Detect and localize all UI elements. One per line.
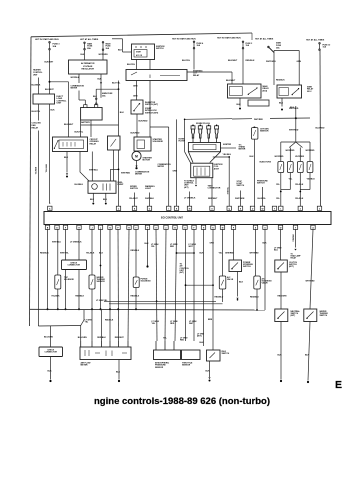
svg-text:WHT/RED: WHT/RED [250,253,260,255]
wire tab 47.5 to bus [47,229,49,309]
svg-text:GRN/BLK: GRN/BLK [292,234,294,242]
fuse FUSE 3 30A [49,42,51,51]
svg-text:BLK: BLK [263,243,268,245]
wire BLK to ignition switch [122,39,124,52]
svg-text:OXYGENSENSOR: OXYGENSENSOR [260,128,269,132]
svg-text:RED/BLK: RED/BLK [276,79,285,81]
box below main relays [248,100,269,106]
wire tab 110 to air flow meter [109,229,111,341]
box atmospheric pressure sensor [154,350,181,360]
svg-text:YEL/BLU: YEL/BLU [223,154,232,156]
relay circuit opening relay [53,137,88,152]
wire BLK/RED inhibitor to solenoid [136,114,138,137]
svg-text:BLK: BLK [93,96,98,98]
fuel pump [88,181,116,193]
wire tab 57 to bus through TOP sensor [57,229,59,309]
wire GRN distributor to EGI [176,119,178,206]
svg-text:HOT IN START AND RUN: HOT IN START AND RUN [172,37,196,40]
wire WHT/GRN fuse to regulator [102,51,104,61]
svg-text:YEL/BLK: YEL/BLK [295,198,304,200]
ground main relay 1 [239,98,241,107]
svg-text:WHT/GRN: WHT/GRN [235,198,245,200]
svg-text:GRN: GRN [210,243,215,245]
ground main relay 2 [281,98,283,107]
svg-text:BLU/GRN: BLU/GRN [44,336,53,338]
svg-text:BLK: BLK [305,354,310,356]
wire battery bottom to relay [80,120,82,137]
svg-text:WHT/YEL: WHT/YEL [60,253,70,255]
svg-text:J: J [91,228,92,230]
svg-text:SPARK PLUGS: SPARK PLUGS [196,122,211,125]
wire tab 79 to bus [78,229,80,309]
switch clutch switch [275,260,288,272]
wire clutch to neutral switch [280,272,282,309]
fuse MAIN FUSE 30A [102,42,104,51]
spark plug 3 [207,126,211,129]
svg-text:BLK: BLK [120,112,125,114]
svg-text:BLK/WHT: BLK/WHT [226,80,236,82]
wire bus drop left [37,309,39,326]
svg-text:WHT/YEL: WHT/YEL [45,164,47,174]
wire BLK battery positive with fuse [96,88,118,90]
wire to tachometer [221,147,237,149]
switch power steering [229,260,242,272]
wire bus to air flow meter 1 [80,326,82,342]
svg-text:WHT/RED: WHT/RED [286,150,295,152]
svg-text:WHT/BLU: WHT/BLU [52,242,62,244]
svg-text:BLK/WHT: BLK/WHT [228,60,238,62]
fuse FUSE 4 30A [193,41,195,49]
wire BLU/YEL below elec load [37,104,39,121]
ground idle switch [209,361,211,377]
wire tab 118 to air flow meter [117,229,120,341]
ground air flow meter [118,360,120,380]
svg-text:RED/BLU: RED/BLU [250,296,259,298]
EGI control unit bottom connector tabs [45,225,49,229]
wire fuel pump feed [109,169,111,181]
wire to main relay horizontal [187,71,232,73]
wire tab 65.5 through check connector [65,229,67,309]
svg-text:BLK: BLK [278,354,283,356]
ground ignition coil [195,178,197,184]
ground neutral switch [280,322,282,380]
wire BLU/BLK heater down [37,78,39,95]
wire BLK fuse to regulator [84,50,86,60]
svg-text:WHT/RED: WHT/RED [275,156,284,158]
svg-text:YEL/BLK: YEL/BLK [307,178,316,180]
starter solenoid [134,137,151,151]
svg-text:BLU/BLK: BLU/BLK [32,84,41,86]
svg-text:BLK/WHT: BLK/WHT [45,89,55,91]
oxygen sensor [253,127,255,129]
wire tab 255.5 to AC solenoid [255,229,257,276]
svg-text:BLK: BLK [81,54,86,56]
svg-text:WHT/RED: WHT/RED [295,156,304,158]
ground starter motor [136,161,138,166]
wire left border [30,37,32,326]
sensor purge solenoid [133,277,139,288]
svg-text:BATTERY: BATTERY [81,121,90,124]
ground power steering [237,272,239,297]
distributor cap [188,143,220,152]
wire tab 185 to throttle sensor [185,229,187,341]
wire main bus [30,308,266,311]
wire tab 194 to throttle sensor [193,229,195,341]
EGI control unit top connector tabs [48,206,52,210]
svg-text:WHT/RED: WHT/RED [289,129,299,131]
wire GRN relay to inhibitor [136,81,138,101]
svg-text:YEL/WHT: YEL/WHT [129,198,139,200]
svg-text:W: W [262,209,264,211]
svg-text:RED/WHT: RED/WHT [208,198,218,200]
sensor AC solenoid valve [254,276,260,289]
injector 1 [278,162,284,173]
svg-text:BLK: BLK [200,253,205,255]
box alternator voltage regulator U1 [69,60,108,74]
svg-text:WHT/RED: WHT/RED [289,108,299,110]
svg-text:RED/BLK: RED/BLK [75,296,84,298]
injector 4 [307,162,313,173]
ground water thermo switch [308,322,310,381]
svg-text:RED/WHT: RED/WHT [115,337,125,339]
svg-text:BLK: BLK [239,281,244,283]
wire ignition to relay box 2 [149,60,151,70]
wire bus to distributor [185,118,232,121]
check connector bottom [39,347,63,357]
svg-text:RED/BLK: RED/BLK [131,295,140,297]
svg-text:LT GRN/BLK: LT GRN/BLK [70,242,82,244]
wire GRN jog to EGI [150,126,169,128]
svg-text:BRN/YEL: BRN/YEL [34,167,36,174]
svg-text:YEL/BLU: YEL/BLU [226,187,228,195]
svg-text:GRN: GRN [173,170,178,172]
wire BLK regulator to battery [100,74,102,98]
injector 2 [287,162,293,173]
spark plug 1 [191,126,195,129]
svg-text:W: W [280,228,282,230]
fusible link MAIN FUSE 30A [268,47,274,53]
svg-text:HOT IN START AND RUN: HOT IN START AND RUN [35,38,59,41]
svg-text:BLK: BLK [279,102,284,104]
wire tab 147.5 ends at connector dot [147,229,149,265]
wire injector pair merge 2 [299,173,301,207]
switch inhibitor switch S2 [131,100,143,114]
svg-text:RED/BLK: RED/BLK [131,250,140,252]
svg-text:BLK/YEL: BLK/YEL [112,83,121,85]
svg-text:BRN: BRN [208,319,213,321]
box EGI control unit U2 [44,212,331,225]
svg-text:WHT/GRN: WHT/GRN [99,54,109,56]
svg-text:WHT/BLK: WHT/BLK [71,77,80,79]
svg-text:IGNITER: IGNITER [223,144,232,146]
svg-text:BLK: BLK [200,342,205,344]
wire circuit opening relay right down [80,152,89,182]
svg-text:YEL/BLK: YEL/BLK [51,296,60,298]
svg-text:BLK: BLK [145,243,150,245]
wire injector feed split [281,141,310,143]
svg-text:BLK: BLK [64,157,69,159]
svg-text:GRN: GRN [297,61,302,63]
ignition coil [191,163,213,178]
ground fuel pump 1 [92,193,94,202]
svg-text:RED/BLK: RED/BLK [40,253,49,255]
wire bus to air flow meter 2 [91,310,93,341]
svg-text:BLU/YEL: BLU/YEL [258,198,267,200]
svg-text:BLK: BLK [237,104,242,106]
switch water thermo switch [304,309,317,322]
wire top hot bus rail [31,33,252,37]
wire BLU/RED right side long [319,51,322,207]
wire tab 129 to air flow meter [128,229,129,341]
wire tab 222.5 to AC valve [222,229,224,276]
wire battery bottom 2 [90,120,92,137]
wire YEL/BLU coil to EGI [213,156,229,158]
svg-text:BLK: BLK [51,109,56,111]
svg-text:WHT/BLU: WHT/BLU [89,169,99,171]
fuse FUSE 10 10A [319,43,321,51]
wire merge bar to AT [177,252,195,254]
sensor water thermo sensor [89,275,95,289]
wire BLK oxygen to EGI [253,139,255,206]
box throttle sensor [182,350,201,360]
wire resistor down [113,150,115,182]
starter motor M1 [132,151,141,160]
distributor cone [184,119,186,151]
box idle switch [207,350,221,361]
wire BLK/YEL fuse4 down [193,49,195,70]
svg-text:BLK: BLK [116,371,121,373]
svg-text:BLU/BLK: BLU/BLK [75,184,84,186]
svg-text:RED/BLK: RED/BLK [246,60,255,62]
svg-text:LT GRN/BLK: LT GRN/BLK [184,198,196,200]
svg-text:WHT/RED: WHT/RED [306,280,316,282]
spark plug 4 [215,126,219,129]
wire WHT/RED down to injectors [295,118,297,142]
wire water thermo switch feed [310,229,313,309]
svg-text:BLK: BLK [250,156,255,158]
ground circuit opening relay [66,152,68,173]
wire tab 175 to atmospheric sensor [175,229,177,341]
svg-text:EGI CONTROL UNIT: EGI CONTROL UNIT [161,217,184,219]
svg-text:BLK/YEL: BLK/YEL [75,131,84,133]
svg-text:RED/BLK: RED/BLK [105,319,114,321]
wire tab 213 to idle switch [212,229,214,350]
battery B1 [81,108,103,121]
svg-text:HOT AT ALL TIMES: HOT AT ALL TIMES [306,38,325,41]
wire BLK/YEL ignition to relay box [136,60,138,70]
sensor TOP switch [55,275,61,289]
injector 3 [297,162,303,173]
wire second bus [38,325,80,328]
wire tab 92 through water thermo sensor [91,229,93,309]
svg-text:HOT AT ALL TIMES: HOT AT ALL TIMES [80,38,99,41]
svg-text:ngine controls-1988-89 626 (no: ngine controls-1988-89 626 (non-turbo) [94,395,270,406]
svg-text:HOT AT ALL TIMES: HOT AT ALL TIMES [255,38,274,41]
svg-text:BLK: BLK [103,199,108,201]
svg-text:M: M [135,155,138,159]
svg-text:HOT IN START AND RUN: HOT IN START AND RUN [217,37,241,40]
svg-text:BLU/RED: BLU/RED [316,127,325,129]
svg-text:BLK/YEL: BLK/YEL [182,60,191,62]
wire GRN to main relay 2 [298,51,300,86]
svg-text:INJECTORS: INJECTORS [260,161,272,163]
svg-text:1: 1 [280,209,281,211]
svg-text:GRN/RED: GRN/RED [225,253,235,255]
svg-text:BLK/RED: BLK/RED [139,120,148,122]
svg-text:BLK/WHT: BLK/WHT [64,124,74,126]
wire aux bus y302 [104,300,216,302]
wire WHT/BLK below regulator [78,74,80,83]
switch neutral switch [275,309,288,322]
svg-text:WHT/RED: WHT/RED [254,119,263,121]
svg-text:WHT/RED: WHT/RED [306,150,315,152]
wire tab 156 to atmospheric sensor [156,229,157,341]
wire fuse2 to main relay [242,49,244,84]
relay main relay EGI K1 [228,84,262,98]
svg-text:WHT/GRN: WHT/GRN [266,61,276,63]
wire relay to starter solenoid [149,81,151,138]
ground check connector [50,357,52,380]
wire left long down to bus [37,131,39,310]
fuse FUSE 2 15A [242,41,244,49]
svg-text:GRN: GRN [133,85,138,87]
svg-text:BLU/YEL: BLU/YEL [32,111,41,113]
svg-text:YEL/BLK: YEL/BLK [295,184,304,186]
wire tab 166 to atmospheric sensor [165,229,166,341]
svg-text:BLK: BLK [48,370,53,372]
svg-text:YEL/BLK: YEL/BLK [86,253,95,255]
wire BLK/WHT fuse 3 down [49,50,51,94]
wire AT branch right [186,284,214,286]
box fuel pump resistor [108,136,121,150]
switch ignition switch [132,44,155,60]
wire fusible to main relay 2 [274,50,299,52]
wire tab 203.5 to idle area [203,229,205,346]
wire clutch switch [280,229,282,260]
wire check connector bottom feed [50,326,52,347]
wire GRN/BLK off page arrow [295,229,297,247]
svg-text:BLK/RED: BLK/RED [131,132,140,134]
ground fuel pump 2 [105,193,107,202]
wire tab 100.5 to bus [100,229,102,309]
svg-text:WHT/BLK: WHT/BLK [145,198,155,200]
relay box ignition relay strip [126,70,187,81]
svg-text:BLK: BLK [206,370,211,372]
wire purge solenoid [135,229,137,277]
svg-text:BLU/GRN: BLU/GRN [78,337,87,339]
svg-text:BLK: BLK [98,79,103,81]
wire WHT/BLU relay to fuel pump [91,152,93,182]
wire injector pair merge 1 [280,173,282,207]
wire test connector to EGI [211,178,213,206]
svg-text:3: 3 [319,209,320,211]
sensor AC valve [219,276,226,289]
svg-text:RED/GRN: RED/GRN [278,295,288,297]
node junction blk/wht [49,81,51,83]
box elec load control unit [33,94,55,104]
box air flow meter [80,347,131,360]
svg-text:E: E [335,379,342,391]
svg-text:GRN: GRN [133,95,138,97]
fuse MAIN FUSE 80A [84,42,86,50]
svg-text:RED/BLU: RED/BLU [215,296,224,298]
svg-text:WHT/RED: WHT/RED [121,173,131,175]
relay main relay no2 K2 [277,85,302,98]
svg-text:BLK: BLK [90,199,95,201]
wire WHT/YEL to EGI pin A [49,104,51,203]
svg-text:BLK: BLK [99,253,104,255]
air flow meter ticks [80,341,82,347]
spark plug 2 [198,126,202,129]
wire tab 265 to bus [264,229,266,310]
atmospheric pressure sensor ticks [155,341,157,350]
wire BLK/YEL fuel pump feed [118,81,120,207]
wire WHT/RED horizontal bus [232,118,252,120]
wire bus to air flow meter 3 [101,310,103,341]
svg-text:BLK/YEL: BLK/YEL [127,64,136,66]
svg-text:BLK: BLK [118,50,123,52]
check connector mid [62,260,87,270]
svg-text:BLK/WHT: BLK/WHT [45,62,55,64]
wire battery negative [79,99,85,101]
svg-text:2: 2 [300,209,301,211]
